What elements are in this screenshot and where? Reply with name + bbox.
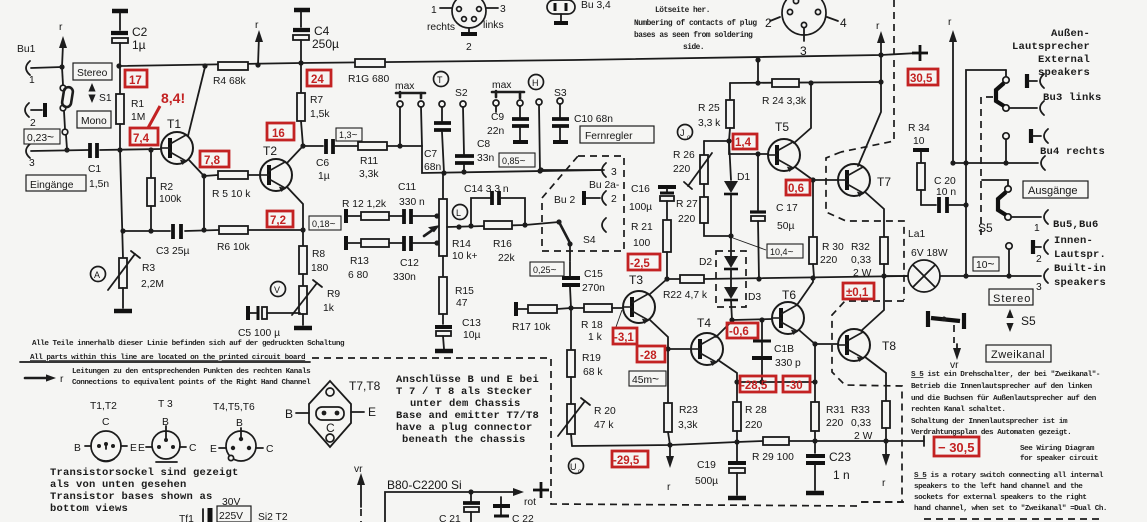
svg-text:220: 220 bbox=[826, 418, 843, 429]
svg-text:1 n: 1 n bbox=[833, 468, 850, 482]
svg-text:1: 1 bbox=[431, 5, 437, 16]
svg-text:C2: C2 bbox=[132, 25, 148, 39]
label red 1,4 bbox=[733, 134, 757, 149]
svg-text:max: max bbox=[492, 80, 512, 91]
note Innen-Lautsprecher bbox=[1054, 235, 1106, 289]
capacitor C18 bbox=[752, 320, 801, 385]
node H test point bbox=[529, 75, 544, 90]
diode D3 bbox=[724, 269, 761, 320]
note r-link legend arrow bbox=[25, 374, 64, 385]
svg-text:6V 18W: 6V 18W bbox=[911, 248, 948, 259]
svg-text:C: C bbox=[326, 421, 335, 435]
svg-text:C14 3,3 n: C14 3,3 n bbox=[464, 184, 509, 195]
resistor R29 bbox=[752, 437, 794, 463]
wire: T6 base line bbox=[732, 317, 772, 322]
svg-text:T4: T4 bbox=[697, 316, 711, 330]
capacitor C2 bbox=[111, 11, 148, 66]
resistor R31 bbox=[811, 382, 845, 441]
label Ausgaenge bbox=[1023, 181, 1088, 198]
svg-text:C3 25µ: C3 25µ bbox=[156, 246, 189, 257]
svg-text:330n: 330n bbox=[393, 272, 416, 283]
node Jo test point bbox=[678, 125, 693, 142]
svg-text:180: 180 bbox=[311, 263, 328, 274]
svg-text:C7: C7 bbox=[424, 149, 437, 160]
resistor R23 bbox=[664, 349, 698, 445]
transistor T5 bbox=[768, 139, 800, 172]
svg-text:10 n: 10 n bbox=[936, 187, 956, 198]
svg-text:47: 47 bbox=[456, 298, 468, 309]
svg-text:Stereo: Stereo bbox=[77, 68, 108, 79]
label red -29,5 bbox=[612, 451, 648, 467]
svg-text:R 29 100: R 29 100 bbox=[752, 452, 794, 463]
svg-text:225V: 225V bbox=[219, 511, 243, 522]
svg-text:33n: 33n bbox=[477, 153, 494, 164]
svg-text:B80-C2200 Si: B80-C2200 Si bbox=[387, 478, 462, 492]
resistor R33 bbox=[851, 401, 890, 442]
capacitor C6 bbox=[303, 139, 333, 182]
svg-text:0,23~: 0,23~ bbox=[27, 130, 54, 144]
svg-text:R1G 680: R1G 680 bbox=[348, 74, 389, 85]
label red -30 bbox=[783, 376, 810, 392]
svg-text:vr: vr bbox=[354, 464, 363, 475]
label red 7,8 bbox=[200, 151, 229, 167]
svg-text:24: 24 bbox=[311, 74, 324, 86]
svg-text:2: 2 bbox=[611, 194, 617, 205]
svg-text:Lötseite her.: Lötseite her. bbox=[655, 7, 710, 15]
connector Bu1 pin 2 bbox=[25, 103, 45, 129]
connector Bu4 rechts jack bbox=[953, 146, 1105, 170]
wire: T4 collector to diode string bbox=[716, 317, 735, 337]
capacitor C9 bbox=[487, 106, 529, 142]
svg-text:10: 10 bbox=[913, 136, 925, 147]
wire: T5 base bias bbox=[729, 141, 768, 157]
label 10~ bbox=[973, 257, 999, 271]
wire: feedback line to output bbox=[704, 273, 908, 281]
wire: speaker selector bus bbox=[963, 70, 1006, 279]
switch S2 bbox=[455, 88, 468, 154]
label red 0,6 bbox=[786, 180, 810, 195]
svg-text:22n: 22n bbox=[487, 126, 504, 137]
resistor R32 bbox=[851, 237, 888, 279]
svg-text:1M: 1M bbox=[131, 112, 145, 123]
svg-text:R4 68k: R4 68k bbox=[213, 76, 246, 87]
diode D1 bbox=[724, 141, 750, 239]
label 10,4~ pointer bbox=[733, 238, 766, 250]
svg-text:68n: 68n bbox=[424, 162, 441, 173]
svg-text:R 30: R 30 bbox=[822, 242, 844, 253]
resistor R19 bbox=[567, 308, 603, 404]
svg-text:0,33: 0,33 bbox=[851, 255, 871, 266]
svg-text:Tf1: Tf1 bbox=[179, 514, 194, 522]
dashed channel border around T8 bbox=[832, 301, 904, 502]
svg-text:7,4: 7,4 bbox=[133, 133, 150, 145]
svg-text:Mono: Mono bbox=[81, 116, 107, 127]
svg-text:R7: R7 bbox=[310, 95, 323, 106]
svg-text:C1: C1 bbox=[88, 164, 101, 175]
svg-text:side.: side. bbox=[683, 44, 704, 52]
svg-text:3: 3 bbox=[611, 167, 617, 178]
svg-text:speakers: speakers bbox=[1054, 277, 1106, 289]
svg-text:1µ: 1µ bbox=[318, 171, 330, 182]
svg-text:S 5 ist ein Drehschalter, der: S 5 ist ein Drehschalter, der bei "Zweik… bbox=[911, 371, 1100, 379]
note S5 german paragraph bbox=[911, 371, 1100, 437]
svg-text:7,8: 7,8 bbox=[204, 155, 221, 167]
capacitor C4 bbox=[293, 10, 339, 63]
svg-text:R13: R13 bbox=[350, 256, 369, 267]
svg-text:See Wiring Diagram: See Wiring Diagram bbox=[1020, 445, 1095, 453]
svg-text:2 W: 2 W bbox=[853, 268, 872, 279]
wire: T2 collector bbox=[287, 143, 306, 163]
potentiometer R14 bbox=[424, 173, 477, 262]
capacitor C16 bbox=[629, 184, 676, 220]
switch S5 contact Bu4 bbox=[1003, 133, 1009, 166]
label 0,18~ bbox=[309, 216, 341, 230]
svg-text:Alle Teile innerhalb dieser Li: Alle Teile innerhalb dieser Linie befind… bbox=[32, 340, 345, 348]
svg-text:0,33: 0,33 bbox=[851, 418, 871, 429]
svg-text:C13: C13 bbox=[462, 318, 481, 329]
capacitor C3 bbox=[156, 224, 189, 257]
svg-text:R 26: R 26 bbox=[673, 150, 695, 161]
svg-text:2: 2 bbox=[1036, 254, 1042, 265]
label Stereo box bbox=[989, 289, 1033, 305]
svg-text:1,5n: 1,5n bbox=[89, 179, 109, 190]
resistor R30 bbox=[809, 237, 844, 277]
svg-text:R32: R32 bbox=[851, 242, 870, 253]
resistor R7 bbox=[297, 63, 330, 146]
svg-text:C23: C23 bbox=[829, 450, 851, 464]
svg-text:47 k: 47 k bbox=[594, 420, 614, 431]
capacitor C19 bbox=[695, 442, 746, 495]
svg-text:0,25~: 0,25~ bbox=[533, 265, 557, 276]
switch S3 bbox=[554, 88, 567, 117]
svg-text:Anschlüsse B und E bei: Anschlüsse B und E bei bbox=[396, 374, 539, 386]
svg-text:R31: R31 bbox=[826, 405, 845, 416]
svg-text:links: links bbox=[483, 20, 504, 31]
svg-text:r: r bbox=[60, 374, 64, 385]
svg-text:R17 10k: R17 10k bbox=[512, 322, 551, 333]
capacitor C10 bbox=[552, 114, 613, 142]
transistor T7 bbox=[838, 164, 870, 197]
svg-text:2: 2 bbox=[466, 42, 472, 53]
svg-text:10~: 10~ bbox=[976, 257, 994, 271]
wire: T3 emitter to T4 base bbox=[650, 320, 691, 352]
svg-text:220: 220 bbox=[820, 255, 837, 266]
wire: T7 collector to rail bbox=[858, 21, 885, 166]
svg-text:V: V bbox=[274, 285, 280, 295]
svg-text:30,5: 30,5 bbox=[910, 73, 933, 85]
wire: T6 collector bbox=[797, 278, 813, 305]
svg-text:45m~: 45m~ bbox=[632, 372, 659, 386]
resistor R21 bbox=[631, 220, 671, 279]
svg-text:S1: S1 bbox=[99, 93, 112, 104]
svg-text:3,3k: 3,3k bbox=[359, 169, 379, 180]
connector Bu4 plug bbox=[1031, 129, 1048, 143]
svg-text:sockets for external speakers: sockets for external speakers to the rig… bbox=[914, 494, 1087, 502]
wire: r bus right bbox=[948, 17, 969, 166]
ground below C19 bbox=[728, 497, 746, 499]
capacitor C20 bbox=[921, 176, 969, 213]
svg-text:Bu4 rechts: Bu4 rechts bbox=[1040, 146, 1105, 158]
svg-text:R3: R3 bbox=[142, 263, 155, 274]
capacitor C5 bbox=[238, 306, 300, 339]
potentiometer R26 bbox=[673, 138, 732, 189]
svg-text:Schaltung der Innenlautspreche: Schaltung der Innenlautsprecher ist im bbox=[911, 418, 1068, 426]
node + (positive supply end) bbox=[912, 45, 928, 61]
svg-text:220: 220 bbox=[678, 214, 695, 225]
svg-text:bases as seen from soldering: bases as seen from soldering bbox=[634, 32, 753, 40]
svg-text:7,2: 7,2 bbox=[270, 215, 286, 227]
transistor T1 bbox=[161, 132, 193, 165]
svg-text:C6: C6 bbox=[316, 158, 329, 169]
transistor T2 bbox=[260, 159, 292, 192]
svg-text:-2,5: -2,5 bbox=[630, 258, 650, 270]
svg-text:C: C bbox=[189, 443, 197, 454]
resistor R17 bbox=[512, 302, 571, 333]
wire: H pot contact bbox=[536, 99, 542, 171]
label Zweikanal box bbox=[986, 345, 1051, 362]
connector Bu2 dashed enclosure bbox=[542, 156, 624, 251]
svg-text:Lautsprecher: Lautsprecher bbox=[1012, 41, 1090, 53]
svg-text:C: C bbox=[266, 444, 274, 455]
resistor R13 bbox=[346, 236, 402, 281]
svg-text:R 5 10 k: R 5 10 k bbox=[212, 189, 251, 200]
svg-text:4: 4 bbox=[840, 16, 847, 30]
svg-text:Bu1: Bu1 bbox=[17, 44, 36, 55]
note Loetseite text bbox=[634, 7, 757, 52]
svg-text:C: C bbox=[102, 417, 110, 428]
wire: r link arrow at S1 bbox=[59, 22, 67, 67]
svg-text:-0,6: -0,6 bbox=[729, 326, 749, 338]
svg-text:T7: T7 bbox=[877, 175, 891, 189]
resistor R34 bbox=[908, 123, 930, 205]
svg-text:max: max bbox=[395, 81, 415, 92]
svg-text:r: r bbox=[882, 478, 886, 489]
node T test point bbox=[434, 72, 449, 87]
svg-text:R8: R8 bbox=[312, 249, 325, 260]
svg-text:3: 3 bbox=[800, 44, 807, 58]
wire: PCB border line bbox=[20, 361, 310, 363]
wire: T5 emitter to T7 base / R30 bbox=[795, 167, 838, 237]
wire: T1 emitter node bbox=[189, 160, 207, 233]
connector Innen plug pin2 bbox=[1033, 240, 1048, 265]
ground below C13 bbox=[435, 350, 453, 352]
svg-text:R23: R23 bbox=[679, 405, 698, 416]
svg-text:R22 4,7 k: R22 4,7 k bbox=[663, 290, 708, 301]
svg-text:3: 3 bbox=[1036, 282, 1042, 293]
svg-text:2: 2 bbox=[30, 118, 36, 129]
note see wiring diagram bbox=[1020, 445, 1098, 463]
svg-text:C9: C9 bbox=[491, 112, 504, 123]
label red 16 bbox=[267, 123, 294, 140]
capacitor C13 bbox=[435, 318, 481, 349]
svg-text:All parts within this line are: All parts within this line are located o… bbox=[30, 354, 306, 362]
svg-text:T2: T2 bbox=[263, 144, 277, 158]
switch S1 bbox=[60, 67, 112, 149]
node Uo test point bbox=[569, 459, 584, 476]
svg-text:16: 16 bbox=[272, 128, 285, 140]
node A test point bbox=[91, 267, 106, 282]
svg-text:als von unten gesehen: als von unten gesehen bbox=[50, 479, 187, 491]
svg-text:R 27: R 27 bbox=[676, 199, 698, 210]
svg-text:C15: C15 bbox=[584, 269, 603, 280]
capacitor C11 bbox=[398, 182, 440, 224]
resistor R10 bbox=[355, 59, 385, 67]
svg-text:E: E bbox=[210, 444, 217, 455]
svg-text:r: r bbox=[667, 482, 671, 493]
svg-text:R 20: R 20 bbox=[594, 406, 616, 417]
resistor R27 bbox=[676, 184, 731, 236]
svg-text:50µ: 50µ bbox=[777, 221, 794, 232]
connector DIN plug right bbox=[765, 0, 847, 58]
svg-text:have a plug connector: have a plug connector bbox=[396, 422, 533, 434]
wire: dashed link bus bbox=[981, 97, 993, 235]
resistor R5 bbox=[204, 171, 261, 200]
rectifier B80-C2200 bbox=[354, 464, 549, 522]
resistor R18 bbox=[568, 304, 623, 343]
svg-text:A: A bbox=[94, 270, 100, 280]
wire: T2 emitter column bbox=[287, 187, 306, 246]
wire: T6 emitter to T8 base / R31 bbox=[799, 330, 838, 385]
wire: T7 emitter to R32 bbox=[865, 192, 884, 237]
svg-text:R 12 1,2k: R 12 1,2k bbox=[342, 199, 387, 210]
svg-text:R 34: R 34 bbox=[908, 123, 930, 134]
svg-text:R 24 3,3k: R 24 3,3k bbox=[762, 96, 807, 107]
label red -28 bbox=[637, 346, 665, 362]
svg-text:T5: T5 bbox=[775, 120, 789, 134]
svg-text:3: 3 bbox=[29, 158, 35, 169]
svg-text:100: 100 bbox=[633, 238, 650, 249]
svg-text:bottom views: bottom views bbox=[50, 503, 128, 515]
wire: r arrow below R23 bbox=[666, 447, 674, 493]
wire: T3 collector to R21 bbox=[650, 276, 670, 294]
svg-text:-29,5: -29,5 bbox=[613, 455, 640, 467]
svg-text:3,3 k: 3,3 k bbox=[698, 118, 721, 129]
transistor T8 bbox=[838, 329, 870, 362]
svg-text:C16: C16 bbox=[631, 184, 650, 195]
svg-text:2 W: 2 W bbox=[854, 431, 873, 442]
label red 7,4 bbox=[130, 128, 158, 145]
svg-text:100k: 100k bbox=[159, 194, 182, 205]
resistor R12 bbox=[342, 199, 402, 223]
svg-text:-3,1: -3,1 bbox=[614, 332, 634, 344]
wire: r link arrow at R4 right bbox=[255, 20, 263, 65]
svg-text:r: r bbox=[255, 20, 259, 31]
svg-text:C5 100 µ: C5 100 µ bbox=[238, 328, 280, 339]
svg-text:rot: rot bbox=[524, 497, 536, 508]
svg-text:270n: 270n bbox=[582, 283, 605, 294]
svg-text:B: B bbox=[236, 418, 243, 429]
label red 7,2 bbox=[267, 211, 293, 227]
label +-0,1 bbox=[843, 283, 874, 299]
svg-text:R6 10k: R6 10k bbox=[217, 242, 250, 253]
svg-text:unter dem Chassis: unter dem Chassis bbox=[410, 398, 521, 410]
svg-text:S 5 is a rotary switch connect: S 5 is a rotary switch connecting all in… bbox=[914, 472, 1104, 480]
resistor R4 bbox=[218, 62, 248, 70]
svg-text:C4: C4 bbox=[314, 24, 330, 38]
svg-text:R2: R2 bbox=[160, 182, 173, 193]
svg-text:E: E bbox=[138, 443, 145, 454]
svg-text:R11: R11 bbox=[360, 156, 378, 167]
ground below R3 bbox=[114, 310, 132, 312]
svg-text:C11: C11 bbox=[398, 182, 416, 193]
potentiometer R3 bbox=[108, 150, 164, 308]
svg-text:T: T bbox=[437, 75, 443, 85]
svg-text:C 21: C 21 bbox=[439, 514, 461, 522]
svg-text:Si2 T2: Si2 T2 bbox=[258, 512, 288, 522]
wire: negative supply rail bbox=[572, 436, 924, 448]
label red 24 bbox=[307, 70, 331, 86]
transformer Tf1 bbox=[179, 497, 288, 522]
svg-text:6 80: 6 80 bbox=[348, 270, 368, 281]
svg-text:R 25: R 25 bbox=[698, 103, 720, 114]
svg-text:R 28: R 28 bbox=[745, 405, 767, 416]
wire: T1 collector to rail bbox=[188, 67, 205, 136]
lamp La1 bbox=[884, 229, 1041, 292]
svg-text:10,4~: 10,4~ bbox=[770, 247, 794, 258]
label 1,3~ bbox=[336, 128, 362, 141]
capacitor C17 bbox=[750, 154, 798, 279]
wire: input base line to T1 bbox=[31, 147, 161, 152]
svg-text:3,3k: 3,3k bbox=[678, 420, 698, 431]
wire: signal line steps to volume bus bbox=[422, 146, 604, 176]
label red 17 bbox=[125, 70, 147, 87]
svg-text:R 18: R 18 bbox=[581, 320, 603, 331]
svg-text:0,18~: 0,18~ bbox=[312, 219, 336, 230]
svg-text:330 p: 330 p bbox=[775, 358, 801, 369]
label Mono bbox=[77, 111, 111, 128]
svg-text:-30: -30 bbox=[786, 380, 803, 392]
svg-text:T1,T2: T1,T2 bbox=[90, 401, 117, 412]
label 10,4~ bbox=[767, 244, 803, 258]
label Fernregler bbox=[580, 126, 654, 143]
svg-text:La1: La1 bbox=[908, 229, 925, 240]
svg-text:Base and emitter T7/T8: Base and emitter T7/T8 bbox=[396, 410, 539, 422]
svg-text:D2: D2 bbox=[699, 257, 712, 268]
switch S5 contact Bu3 upper bbox=[996, 70, 1009, 111]
svg-text:r: r bbox=[59, 22, 63, 33]
svg-text:330 n: 330 n bbox=[399, 197, 425, 208]
svg-text:250µ: 250µ bbox=[312, 37, 339, 51]
svg-text:S4: S4 bbox=[583, 235, 596, 246]
node V test point bbox=[271, 282, 286, 297]
svg-text:22k: 22k bbox=[498, 253, 515, 264]
ground below R9 bbox=[294, 327, 312, 329]
svg-text:E: E bbox=[130, 443, 137, 454]
note S5 english paragraph bbox=[914, 472, 1107, 513]
svg-text:1 k: 1 k bbox=[588, 332, 603, 343]
svg-text:8,4!: 8,4! bbox=[161, 90, 185, 106]
svg-text:220: 220 bbox=[673, 164, 690, 175]
svg-text:Innen-: Innen- bbox=[1054, 235, 1093, 247]
transistor T3 bbox=[623, 291, 655, 324]
resistor R22 bbox=[663, 275, 708, 301]
label red 8,4! annotation bbox=[148, 90, 185, 128]
label red -3,1 bbox=[613, 310, 637, 344]
svg-text:T8: T8 bbox=[882, 339, 896, 353]
svg-text:Stereo: Stereo bbox=[993, 293, 1031, 305]
svg-text:vr: vr bbox=[950, 360, 959, 371]
svg-text:C 22: C 22 bbox=[512, 514, 534, 522]
svg-text:3: 3 bbox=[500, 4, 506, 15]
wire: PCB dashed border bbox=[312, 358, 1104, 519]
resistor R25 bbox=[698, 83, 734, 141]
resistor R6 bbox=[217, 226, 303, 253]
svg-text:und die Buchsen für Außenlauts: und die Buchsen für Außenlautsprecher au… bbox=[911, 395, 1097, 403]
svg-text:C8: C8 bbox=[477, 139, 490, 150]
svg-text:C 20: C 20 bbox=[934, 176, 956, 187]
svg-text:R 21: R 21 bbox=[631, 222, 653, 233]
svg-text:C1B: C1B bbox=[774, 344, 794, 355]
